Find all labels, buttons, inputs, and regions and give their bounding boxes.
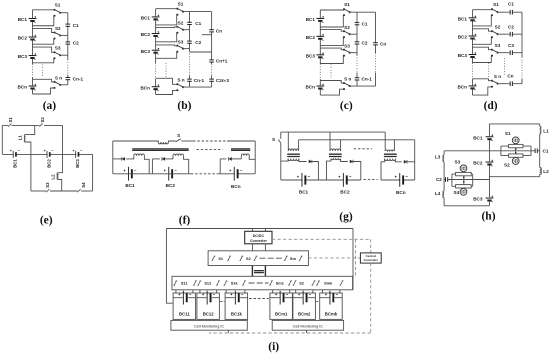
battery BC3 [316, 52, 324, 58]
wire: cell connection stubs group2 [273, 290, 340, 293]
diode D2 [162, 157, 165, 161]
wire: right bus lower (d) [521, 79, 523, 84]
wire: bottom wire left segment (e) [31, 190, 46, 192]
svg-text:BC1: BC1 [18, 17, 28, 22]
switch S1 channel body [509, 144, 523, 147]
diode Dn [229, 157, 232, 161]
wire: right vertical (f) [254, 141, 256, 174]
svg-text:BCm1: BCm1 [275, 312, 288, 317]
svg-text:(e): (e) [40, 215, 53, 227]
wire: node above BCn to Sn upper contact [320, 81, 344, 84]
wire: pack outer box right (i) [352, 229, 354, 290]
wire: Tn primary rise to second bus [393, 140, 395, 151]
battery BCn [229, 167, 242, 181]
svg-text:BC2: BC2 [340, 190, 350, 195]
capacitor C1 [355, 22, 360, 25]
switch S2 [491, 30, 499, 38]
transformer Tn secondary winding [385, 159, 396, 161]
switch S1 [8, 124, 11, 127]
cell box BCm1 [270, 293, 293, 319]
svg-text:Cn+1: Cn+1 [216, 59, 228, 64]
wire: dotted bus continuation (c) [319, 64, 321, 79]
wire: L1 bottom to bottom wire [26, 142, 31, 191]
wire: dashed continuation row2 [249, 282, 269, 284]
svg-text:BC1: BC1 [458, 16, 468, 21]
switch S [278, 140, 281, 144]
wire: dashed control DC-DC to controller [272, 239, 371, 253]
wire: left vertical (f) [112, 141, 114, 174]
wire: L1 top to top wire [26, 125, 35, 134]
switch S1 [343, 8, 351, 16]
svg-text:BC1: BC1 [306, 17, 316, 22]
capacitor C2 [510, 32, 513, 37]
wire: T1 primary rise to second bus [298, 140, 300, 151]
wire: top wire with primary winding (f) [113, 141, 159, 142]
wire: battery series bus (a) [32, 10, 34, 64]
wire: node1 to S2 upper contact [33, 29, 55, 33]
capacitor C1 [66, 24, 71, 27]
svg-text:Cn: Cn [507, 74, 513, 79]
wire: S3 S4 left connector [452, 174, 456, 186]
svg-text:S n: S n [177, 78, 184, 83]
switch S11 [173, 281, 177, 285]
diode D2 [350, 160, 353, 164]
switch S12 [197, 281, 201, 285]
svg-text:S3: S3 [344, 43, 350, 48]
transformer DC link bars [254, 271, 264, 273]
wire: dotted bus continuation (b) [155, 63, 157, 79]
wire: dashed primary row continuation (g) [354, 148, 372, 150]
wire: bottom wire to Sn lower contact [156, 90, 178, 94]
svg-text:Cell Monitoring IC: Cell Monitoring IC [194, 324, 224, 328]
wire: capacitor bus (a) [67, 13, 69, 60]
battery BC3 [152, 48, 160, 54]
capacitor C1 [187, 22, 192, 25]
svg-text:S1: S1 [8, 117, 13, 123]
svg-text:BCn: BCn [305, 85, 315, 90]
switch Sm [284, 256, 288, 260]
transformer T1 primary winding [288, 149, 298, 151]
svg-text:BC2: BC2 [458, 35, 468, 40]
wire: right vertical (e) [92, 154, 94, 191]
battery BC1 [10, 150, 20, 158]
capacitor Cn [209, 29, 214, 32]
svg-text:BC1: BC1 [473, 135, 483, 140]
wire: node2 to S3 upper contact [320, 48, 344, 50]
capacitor Cn [373, 42, 378, 45]
svg-text:Controller: Controller [364, 258, 379, 262]
wire: bottom wire to Sn lower contact [33, 88, 55, 94]
inductor L4 [443, 191, 444, 198]
svg-text:S3: S3 [178, 39, 184, 44]
wire: dotted capacitor bus continuation (a) [67, 60, 69, 75]
wire: top-right vertical to battery row [62, 125, 64, 154]
svg-text:(f): (f) [179, 215, 191, 227]
wire: top right segment (f) [227, 140, 255, 142]
wire: L2 top to battery row [59, 154, 63, 172]
inductor L3 [443, 155, 444, 162]
wire: dashed control switchbox to controller [308, 257, 360, 259]
wire: node3 to S3 lower contact [473, 56, 493, 63]
wire: dotted far bus continuation (c) [375, 53, 377, 73]
battery BC1 [316, 16, 324, 22]
svg-text:C1: C1 [195, 21, 201, 26]
wire: diode2 to BC2 loop right vertical [353, 162, 360, 181]
controller U2 box [360, 253, 381, 263]
svg-text:(g): (g) [339, 211, 353, 223]
wire: capacitor bus (c) [356, 12, 358, 55]
cell box BCm2 [293, 293, 316, 319]
wire: right bus top stub [539, 124, 541, 126]
wire: secondary2 right lead [184, 156, 189, 174]
wire: lower bus segment (d) [472, 79, 474, 96]
battery BC3 [29, 53, 37, 59]
switch S1 mosfet [512, 137, 519, 144]
switch S1 [212, 256, 216, 260]
wire: node1 to S1 lower contact [33, 16, 55, 26]
wire: node3 to S3 lower contact [156, 52, 178, 58]
wire: DC-DC converter stubs top [252, 229, 265, 232]
capacitor C1 [510, 10, 513, 15]
svg-text:C2: C2 [508, 24, 514, 29]
wire: Tn secondary right lead [395, 159, 401, 162]
wire: Sn common to capacitor bus [60, 84, 68, 86]
wire: top wire (a) [33, 9, 55, 11]
switch S1 [53, 9, 61, 17]
wire: secondaryn left lead [240, 156, 242, 159]
wire: bottom rail right (f) [217, 173, 256, 175]
wire: node1 to S1 lower contact [320, 15, 344, 27]
svg-text:BC1: BC1 [125, 183, 135, 188]
wire: lower bus segment (b) [155, 79, 157, 95]
svg-text:S2: S2 [246, 256, 252, 261]
svg-text:S1: S1 [505, 131, 511, 136]
wire: dioden to right vertical [407, 161, 414, 163]
inductor L2 [57, 173, 59, 180]
wire: battery series bus (c) [319, 10, 321, 64]
wire: bottom wire to Sn lower contact [473, 87, 493, 95]
monitor IC2 box [272, 320, 343, 330]
wire: secondaryn right lead [249, 156, 255, 160]
switch Sn [491, 80, 499, 88]
wire: T2 primary rise to second bus [340, 140, 342, 151]
svg-text:BCn: BCn [396, 190, 406, 195]
switch S1 [176, 8, 184, 16]
switch S3 [53, 51, 61, 59]
svg-text:Cn: Cn [216, 29, 222, 34]
wire: bottom rail right (g) [381, 179, 415, 181]
wire: secondary1 right lead [144, 156, 149, 174]
svg-text:S1: S1 [178, 2, 184, 7]
switch S3 [46, 189, 49, 192]
wire: bottom wire left section (h) [444, 205, 489, 207]
switch S2 [293, 281, 297, 285]
switch S3 [176, 45, 184, 53]
wire: T1 secondary left lead to cell loop [281, 159, 288, 162]
capacitor C2 [355, 41, 360, 44]
svg-text:C1: C1 [73, 23, 79, 28]
wire: top wire to right bus (h) [490, 123, 540, 125]
wire: dotted jog-column continuation (c) [330, 65, 332, 79]
svg-text:S2: S2 [299, 281, 305, 286]
svg-text:Cn-1: Cn-1 [362, 77, 373, 82]
wire: far bus lower (c) [375, 73, 377, 87]
wire: node1 to S1 lower contact [473, 15, 493, 26]
transformer T2 primary winding [330, 149, 341, 151]
wire: DC-DC converter stubs bottom [252, 244, 265, 251]
capacitor Cn-1 [66, 77, 71, 80]
wire: node1 to S2 upper contact [320, 30, 344, 32]
wire: node2 to S3 upper contact [473, 47, 493, 50]
wire: DC link left lead [251, 266, 253, 277]
wire: dotted jog-column continuation (b) [165, 63, 167, 78]
wire: S1 common to capacitor bus [60, 12, 68, 14]
wire: dotted common-column continuation (d) [504, 58, 506, 76]
battery BC2 [29, 35, 37, 41]
wire: T2 primary drop from top bus [329, 132, 331, 151]
battery BC2 [486, 160, 494, 166]
switch S2 channel body [509, 154, 523, 157]
switch S2 [239, 256, 243, 260]
wire: DC link right lead [264, 266, 266, 277]
battery BC1 [124, 167, 137, 181]
wire: monitor IC1 stub [227, 330, 229, 333]
battery BC2 [164, 167, 177, 181]
wire: node1 to S2 upper contact [473, 29, 493, 31]
inductor L2 [540, 168, 542, 175]
svg-text:C2: C2 [195, 40, 201, 45]
svg-text:Cn-1: Cn-1 [73, 76, 84, 81]
wire: dashed continuation row1 [260, 257, 283, 259]
wire: top wire right segment (e) [44, 124, 63, 126]
secondary winding cell n (f) [241, 154, 249, 156]
transformer core dashed continuation (f) [197, 149, 223, 151]
diode D1 [122, 157, 125, 161]
wire: top wire mid segment (e) [12, 124, 40, 126]
capacitor Cn+1 [209, 59, 214, 62]
capacitor Cn-1 [355, 77, 360, 80]
switch S3 channel body [456, 172, 472, 175]
wire: switch to right (f) [181, 140, 193, 142]
svg-text:DC/DC: DC/DC [253, 234, 265, 238]
wire: S3 S4 right connector [471, 174, 473, 186]
wire: dashed bottom rail continuation (g) [364, 179, 378, 181]
wire: dotted capacitor bus 2 continuation [211, 64, 213, 76]
wire: node3 to S3 lower contact [320, 56, 344, 64]
wire: central bus top segment (h) [489, 124, 491, 136]
svg-text:(i): (i) [268, 341, 279, 353]
switch S3 mosfet [460, 165, 467, 172]
wire: S1 common to far bus [350, 11, 376, 13]
wire: bus1 to bus2 connector [190, 51, 212, 53]
svg-text:S2: S2 [40, 117, 45, 123]
svg-text:BC3: BC3 [141, 49, 151, 54]
wire: connector below Cn [202, 34, 212, 36]
wire: pack outer box left (i) [166, 229, 173, 304]
transformer T1 secondary winding [288, 159, 299, 161]
svg-text:S11: S11 [181, 281, 189, 286]
battery BC1 [297, 173, 310, 187]
svg-text:S1: S1 [218, 256, 224, 261]
svg-text:Smk: Smk [324, 281, 333, 286]
transformer T2 core [329, 154, 342, 156]
svg-text:S1: S1 [344, 2, 350, 7]
wire: capacitor bus 2 lower [211, 76, 213, 88]
wire: dashed gap BCm2-BCmk [316, 301, 319, 303]
svg-text:L1: L1 [17, 135, 22, 141]
svg-text:BC1: BC1 [299, 190, 309, 195]
cell box BC11 [173, 293, 196, 319]
battery BC2 [338, 173, 351, 187]
switch S3 [343, 49, 351, 57]
wire: S3 common to capacitor bus [350, 52, 357, 54]
cell box BC12 [197, 293, 220, 319]
battery BC1 [152, 15, 160, 21]
capacitor Cn-1 [187, 79, 192, 82]
battery BC3 [73, 150, 83, 158]
svg-text:BC2: BC2 [473, 161, 483, 166]
wire: left bus middle segment [443, 162, 445, 191]
svg-text:Sm1: Sm1 [276, 281, 285, 286]
transformer T1 core [287, 154, 300, 156]
wire: dashed top continuation (f) [193, 140, 227, 142]
svg-text:(a): (a) [43, 100, 57, 112]
module switch box row 1 (i) [208, 251, 308, 266]
svg-text:BCm2: BCm2 [298, 312, 311, 317]
capacitor C2n-3 [209, 79, 214, 82]
svg-text:Cell Monitoring IC: Cell Monitoring IC [293, 324, 323, 328]
transformer primary winding (f) [158, 142, 168, 144]
wire: S1 S2 left connector [501, 146, 509, 156]
wire: Tn secondary left lead to BCn loop [381, 159, 385, 180]
transformer core (f) [132, 149, 189, 151]
capacitor Cn [510, 81, 513, 86]
battery BC1 [469, 15, 477, 21]
svg-text:BC1k: BC1k [231, 312, 243, 317]
svg-text:(c): (c) [340, 100, 353, 112]
svg-text:Converter: Converter [250, 239, 268, 243]
switch S4 [77, 189, 80, 192]
wire: left vertical (e) [1, 125, 3, 154]
switch Sn [53, 81, 61, 89]
wire: second bus (g) [299, 139, 415, 141]
wire: battery row wire (e) [2, 153, 92, 155]
switch S2 mosfet [512, 158, 519, 165]
wire: central bus BC1-BC2 (h) [489, 140, 491, 161]
wire: T1 primary drop from top bus [287, 132, 289, 151]
capacitor C2 [187, 41, 192, 44]
svg-text:S n: S n [344, 77, 351, 82]
battery BC2 [44, 150, 54, 158]
wire: celln left vertical [219, 159, 221, 174]
battery BCn [29, 84, 37, 90]
node: S1 S2 midpoint taps [515, 148, 517, 154]
battery BC2 [316, 34, 324, 40]
wire: Sn common to Cn [499, 83, 522, 85]
wire: left bus bottom segment [443, 198, 445, 206]
monitor IC1 box [171, 320, 247, 330]
wire: S2 common to C2 [499, 33, 522, 35]
svg-text:S4: S4 [81, 182, 86, 188]
wire: central bus bottom (h) [489, 201, 491, 206]
wire: right bottom wire (h) [490, 176, 540, 178]
svg-text:BC1: BC1 [141, 16, 151, 21]
wire: node above BCn to Sn upper contact [156, 78, 178, 84]
switch S [176, 139, 181, 142]
battery BCn [316, 84, 324, 90]
wire: S1 common to second capacitor bus [183, 11, 212, 13]
switch S2 [176, 26, 184, 34]
wire: dashed gap group1-group2 batteries [249, 298, 269, 300]
capacitor C2 [66, 41, 71, 44]
wire: left vertical upper (g) [280, 132, 282, 139]
wire: S2 common to capacitor bus 1 [183, 29, 189, 31]
wire: node2 to S2 lower contact [33, 39, 55, 45]
wire: secondary2 left lead [172, 156, 174, 159]
wire: dashed bottom rail continuation (f) [191, 173, 217, 175]
wire: S3 common to C3 [499, 52, 522, 54]
svg-text:BCn: BCn [17, 85, 27, 90]
svg-text:S3: S3 [495, 43, 501, 48]
wire: node above BCn to Sn upper contact [33, 79, 55, 82]
wire: capacitor bus 2 (b) [211, 12, 213, 64]
svg-text:S1: S1 [493, 2, 499, 7]
svg-text:S2: S2 [344, 25, 350, 30]
wire: dashed control controller to monitor ICs [209, 263, 371, 333]
svg-text:S n: S n [494, 74, 501, 79]
wire: top wire (b) [156, 8, 178, 10]
wire: capacitor bus 1 lower [189, 76, 191, 88]
switch S4 mosfet [460, 188, 467, 195]
wire: battery series bus (d) [472, 10, 474, 63]
svg-text:S1: S1 [55, 3, 61, 8]
switch Smk [316, 281, 320, 285]
svg-text:L2: L2 [50, 174, 55, 180]
svg-text:BC2: BC2 [141, 32, 151, 37]
svg-text:S2: S2 [495, 25, 501, 30]
wire: diode1 to BC1 loop right vertical [312, 162, 318, 181]
wire: capacitor bus lower (c) [356, 73, 358, 87]
wire: right bus bottom segment [539, 174, 541, 176]
wire: bottom wire to Sn lower contact [320, 89, 344, 95]
module switch box row 2 (i) [172, 276, 353, 290]
wire: Sn common to second capacitor bus [183, 86, 212, 88]
diode D1 [309, 160, 312, 164]
wire: cell connection stubs group1 [176, 290, 245, 293]
cell box BC1k [225, 293, 248, 319]
wire: top wire (c) [320, 9, 344, 11]
secondary winding cell 2 (f) [173, 154, 184, 156]
switch S1 [491, 8, 499, 16]
wire: monitor IC2 stub [306, 330, 308, 333]
wire: top wire (d) [473, 9, 493, 11]
wire: secondary1 left lead [126, 156, 134, 159]
wire: right return bus (d) [521, 12, 523, 57]
svg-text:S3: S3 [45, 182, 50, 188]
wire: cell2 left vertical [151, 159, 153, 174]
svg-text:(b): (b) [177, 100, 191, 112]
wire: bottom wire right segment (e) [81, 190, 92, 192]
wire: central bus BC2-BC3 (h) [489, 165, 491, 197]
wire: dashed control vertical to row2 [355, 239, 357, 276]
wire: cell2 diode wire [152, 158, 160, 160]
wire: right vertical (g) [414, 140, 416, 180]
svg-text:BC3: BC3 [306, 53, 316, 58]
wire: top wire left segment (e) [2, 124, 8, 126]
wire: S3 common to capacitor bus 1 [183, 48, 189, 50]
wire: bottom rail (g) [281, 179, 361, 181]
wire: left bus (h) [443, 151, 445, 155]
